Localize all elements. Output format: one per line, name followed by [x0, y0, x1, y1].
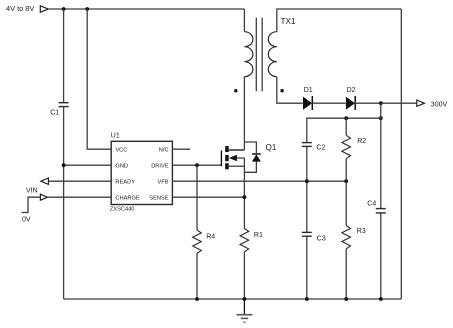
svg-text:R3: R3	[357, 228, 366, 235]
svg-text:N/C: N/C	[159, 147, 169, 153]
svg-text:D2: D2	[347, 87, 356, 94]
wire VIN triangle to CHARGE pin	[48, 196, 111, 198]
wire top rail left (input to transformer primary)	[48, 8, 244, 10]
node C4 branch / feedback line	[379, 116, 383, 120]
wire drain vertical (primary bottom to drain)	[243, 77, 245, 150]
wire 0V stub	[22, 197, 41, 212]
wire R2 bottom to VFB line	[345, 159, 347, 182]
node bottom rail / C4	[379, 297, 383, 301]
svg-text:ZXSC440: ZXSC440	[110, 207, 135, 213]
wire C4 branch upper	[380, 103, 382, 208]
node bottom rail / R3	[344, 297, 348, 301]
wire C3 bottom	[306, 237, 308, 299]
svg-text:U1: U1	[111, 133, 120, 140]
svg-text:VFB: VFB	[158, 179, 169, 185]
node output / C4 branch	[379, 101, 383, 105]
svg-text:GND: GND	[115, 163, 128, 169]
node DRIVE / R4 branch	[195, 163, 199, 167]
svg-text:0V: 0V	[22, 217, 31, 224]
svg-text:CHARGE: CHARGE	[115, 195, 140, 201]
wire C1 branch lower	[63, 107, 65, 299]
wire bottom rail	[64, 298, 402, 300]
wire R3 top	[345, 181, 347, 225]
capacitor C4	[367, 201, 386, 213]
channel bar drain	[225, 146, 229, 152]
svg-text:Q1: Q1	[266, 143, 277, 152]
svg-text:C2: C2	[316, 144, 325, 151]
svg-text:300V: 300V	[431, 101, 448, 108]
phase dot primary	[234, 89, 237, 92]
svg-text:DRIVE: DRIVE	[151, 163, 169, 169]
capacitor C1	[50, 103, 68, 117]
wire primary top	[243, 9, 245, 32]
svg-text:READY: READY	[115, 179, 135, 185]
wire feedback top line	[307, 118, 381, 142]
resistor R3	[342, 226, 366, 249]
primary winding	[244, 32, 253, 77]
svg-text:R1: R1	[254, 232, 263, 239]
core	[255, 18, 257, 92]
drain lead	[229, 149, 245, 151]
ground	[237, 299, 253, 322]
wire R1 lower	[243, 252, 245, 299]
node bottom rail / C3	[305, 297, 309, 301]
output port READY arrow	[41, 178, 49, 184]
node bottom rail / R1 ground	[243, 297, 247, 301]
svg-text:VCC: VCC	[115, 147, 127, 153]
svg-text:R2: R2	[357, 138, 366, 145]
input port VIN	[26, 187, 48, 200]
node VFB / R2 branch	[344, 179, 348, 183]
wire D1 to D2	[312, 102, 345, 104]
source lead	[229, 165, 245, 167]
transistor Q1 (MOSFET with body diode)	[221, 142, 276, 172]
wire DRIVE pin to gate	[172, 164, 221, 166]
svg-text:C3: C3	[317, 236, 326, 243]
transformer TX1	[234, 17, 296, 93]
svg-text:SENSE: SENSE	[149, 195, 168, 201]
svg-text:R4: R4	[206, 233, 215, 240]
wire C4 branch lower	[380, 213, 382, 299]
op-amp U1 ZXSC440 box	[110, 133, 173, 213]
node GND / C1 branch	[62, 163, 66, 167]
wire R3 bottom	[345, 249, 347, 299]
phase dot secondary	[280, 89, 283, 92]
node top rail / C1 branch	[62, 7, 66, 11]
svg-text:TX1: TX1	[281, 17, 296, 26]
svg-text:C1: C1	[50, 110, 59, 117]
svg-text:C4: C4	[367, 201, 376, 208]
output port 300V	[417, 100, 448, 108]
wire N/C stub	[172, 148, 190, 150]
node SENSE / source branch	[243, 195, 247, 199]
wire READY pin	[48, 180, 111, 182]
wire VCC branch	[87, 9, 111, 149]
wire GND pin to C1 branch	[64, 164, 112, 166]
wire R2 top	[345, 118, 347, 135]
body diode	[252, 154, 261, 161]
wire secondary bottom to D1	[277, 77, 303, 104]
wire C2 bottom to VFB line	[306, 147, 308, 232]
resistor R1	[240, 229, 263, 252]
resistor R2	[342, 135, 366, 158]
body arrow	[229, 155, 237, 161]
secondary winding	[268, 32, 277, 77]
wire source vertical down to R1	[243, 166, 245, 228]
diode D2	[346, 87, 356, 110]
capacitor C2	[302, 143, 326, 152]
diode D1	[303, 87, 313, 110]
channel bar body	[225, 155, 229, 161]
wire body-diode loop	[244, 142, 256, 153]
svg-text:4V to 8V: 4V to 8V	[6, 4, 34, 13]
svg-text:D1: D1	[304, 87, 313, 94]
wire C1 branch upper	[63, 9, 65, 102]
capacitor C3	[302, 232, 326, 242]
node bottom rail / R4	[195, 297, 199, 301]
svg-text:VIN: VIN	[26, 187, 38, 194]
resistor R4	[193, 230, 216, 253]
node VFB / C2 branch	[305, 179, 309, 183]
wire SENSE pin to source branch	[172, 196, 244, 198]
wire R4 branch upper	[196, 165, 198, 230]
node R2 top	[344, 116, 348, 120]
wire body to source	[243, 158, 245, 166]
gate bar	[220, 151, 222, 167]
wire right rail vertical	[400, 9, 402, 299]
wire D2 to output	[355, 102, 417, 104]
node top rail / VCC branch	[85, 7, 89, 11]
channel bar source	[225, 163, 229, 169]
wire VFB line	[172, 180, 346, 182]
input port 4V to 8V	[6, 4, 48, 13]
wire secondary top to right rail	[277, 9, 402, 32]
wire R4 branch lower	[196, 253, 198, 299]
